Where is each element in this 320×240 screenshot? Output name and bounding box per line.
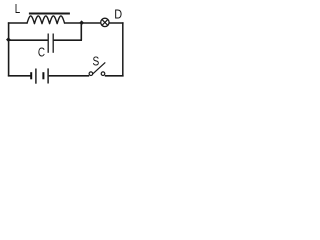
svg-text:L: L — [15, 3, 20, 17]
svg-text:S: S — [93, 54, 100, 68]
svg-text:D: D — [114, 7, 122, 22]
svg-text:C: C — [38, 46, 45, 60]
